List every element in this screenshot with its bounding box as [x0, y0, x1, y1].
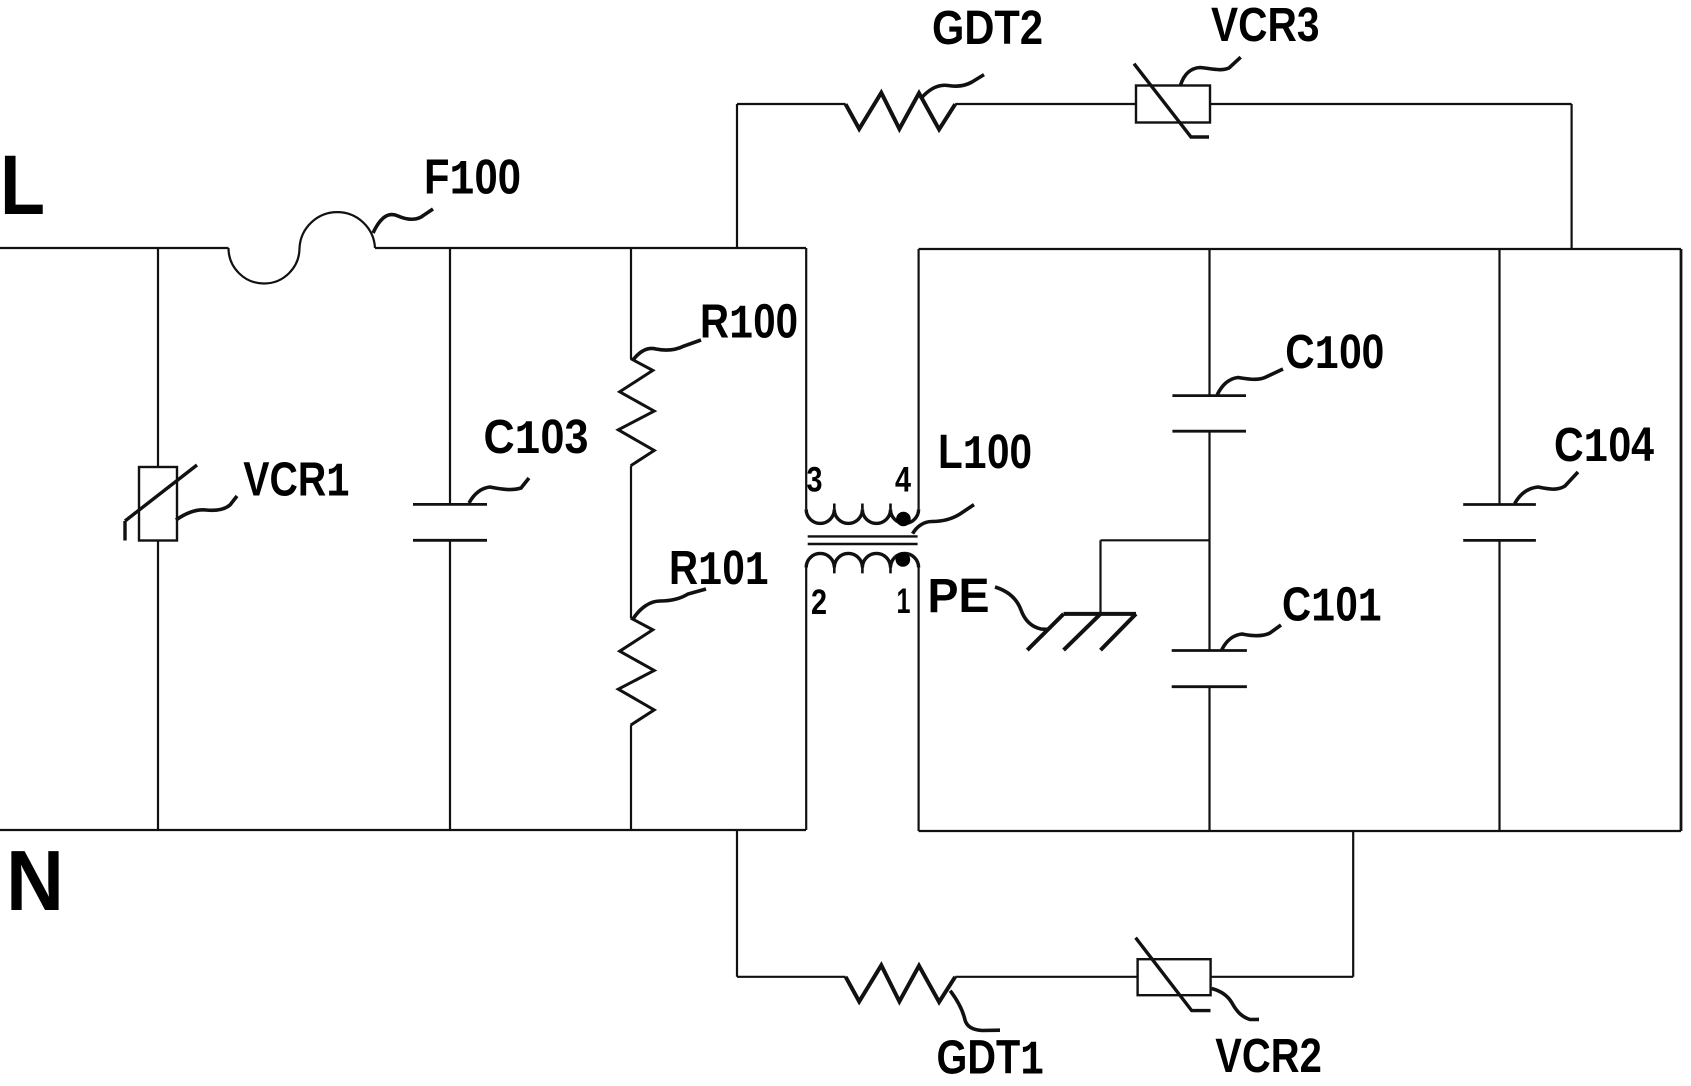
- svg-text:R100: R100: [700, 296, 798, 353]
- leader VCR2: [1212, 989, 1259, 1020]
- leader R100: [633, 340, 701, 360]
- svg-text:N: N: [6, 834, 64, 929]
- svg-text:C103: C103: [484, 411, 589, 468]
- wire top branch left segment: [737, 103, 846, 105]
- wire C100 top lead: [1208, 249, 1210, 396]
- leader C100: [1217, 369, 1283, 395]
- wire top branch right segment: [955, 103, 1571, 105]
- wire right box top: [919, 248, 1681, 250]
- node dot pin 1: [896, 552, 911, 567]
- capacitor C104: [1463, 505, 1536, 541]
- varistor VCR3: [1134, 64, 1210, 137]
- wire right box bottom: [919, 830, 1681, 832]
- svg-text:VCR1: VCR1: [243, 453, 349, 510]
- wire C104 top lead: [1498, 249, 1500, 505]
- wire PE ground lead: [1099, 540, 1101, 614]
- leader L100: [913, 505, 974, 534]
- wire bottom branch right segment: [955, 976, 1353, 978]
- leader GDT1: [950, 991, 1000, 1031]
- wire GDT1 branch left vertical: [736, 830, 738, 977]
- leader C103: [469, 478, 529, 503]
- leader VCR3: [1180, 57, 1240, 85]
- node dot pin 4: [896, 512, 911, 527]
- wire C101 bottom lead: [1208, 687, 1210, 831]
- svg-text:2: 2: [811, 583, 827, 622]
- wire transformer top right lead: [917, 249, 919, 509]
- wire VCR3 right vertical: [1570, 104, 1572, 249]
- wire transformer top left lead: [805, 248, 807, 509]
- transformer L100 secondary winding: [806, 553, 918, 573]
- wire C104 bottom lead: [1498, 540, 1500, 831]
- svg-text:L100: L100: [938, 426, 1032, 483]
- leader C104: [1515, 472, 1578, 504]
- leader R101: [633, 589, 706, 619]
- GDT GDT2: [846, 93, 956, 130]
- wire transformer bottom right lead: [917, 568, 919, 832]
- svg-text:C100: C100: [1285, 326, 1384, 383]
- leader PE: [995, 587, 1049, 629]
- ground PE symbol: [1027, 614, 1136, 650]
- wire bottom branch left segment: [737, 976, 846, 978]
- capacitor C101: [1172, 651, 1247, 687]
- capacitor C103: [413, 504, 487, 540]
- svg-text:4: 4: [895, 460, 911, 499]
- wire right box right edge: [1680, 249, 1683, 831]
- svg-text:1: 1: [897, 582, 911, 621]
- svg-text:3: 3: [807, 460, 823, 499]
- wire N rail: [0, 829, 806, 831]
- resistor R100: [618, 359, 654, 466]
- wire R100 top lead: [630, 248, 632, 359]
- transformer L100 core: [808, 536, 918, 544]
- svg-text:PE: PE: [928, 570, 990, 623]
- wire C100-C101 link: [1208, 431, 1210, 650]
- leader GDT2: [921, 75, 985, 99]
- svg-text:L: L: [0, 138, 45, 232]
- svg-text:VCR2: VCR2: [1215, 1030, 1322, 1083]
- wire VCR1 branch: [157, 248, 159, 830]
- capacitor C100: [1172, 396, 1246, 432]
- transformer L100 primary winding: [806, 504, 918, 524]
- wire VCR2 right vertical: [1352, 831, 1354, 977]
- resistor R101: [618, 618, 654, 725]
- svg-text:GDT1: GDT1: [937, 1032, 1045, 1086]
- svg-text:R101: R101: [669, 542, 769, 599]
- varistor VCR1: [125, 465, 197, 541]
- leader F100: [373, 209, 433, 233]
- wire PE junction horizontal: [1101, 539, 1210, 541]
- leader C101: [1222, 625, 1281, 650]
- wire R101 bottom lead: [630, 725, 632, 830]
- wire C103 top lead: [449, 248, 451, 504]
- GDT GDT1: [846, 965, 956, 1002]
- svg-text:F100: F100: [424, 151, 521, 209]
- svg-text:VCR3: VCR3: [1211, 0, 1320, 52]
- fuse F100: [229, 212, 376, 283]
- svg-text:C101: C101: [1282, 579, 1382, 636]
- wire GDT2 branch left vertical: [736, 104, 738, 248]
- svg-text:GDT2: GDT2: [932, 2, 1043, 55]
- svg-text:C104: C104: [1554, 419, 1654, 476]
- wire transformer bottom left lead: [805, 568, 807, 831]
- varistor VCR2: [1136, 938, 1211, 1011]
- leader VCR1: [176, 496, 237, 520]
- wire C103 bottom lead: [449, 541, 451, 831]
- wire L rail: [0, 247, 229, 249]
- wire R100-R101 link: [630, 466, 632, 618]
